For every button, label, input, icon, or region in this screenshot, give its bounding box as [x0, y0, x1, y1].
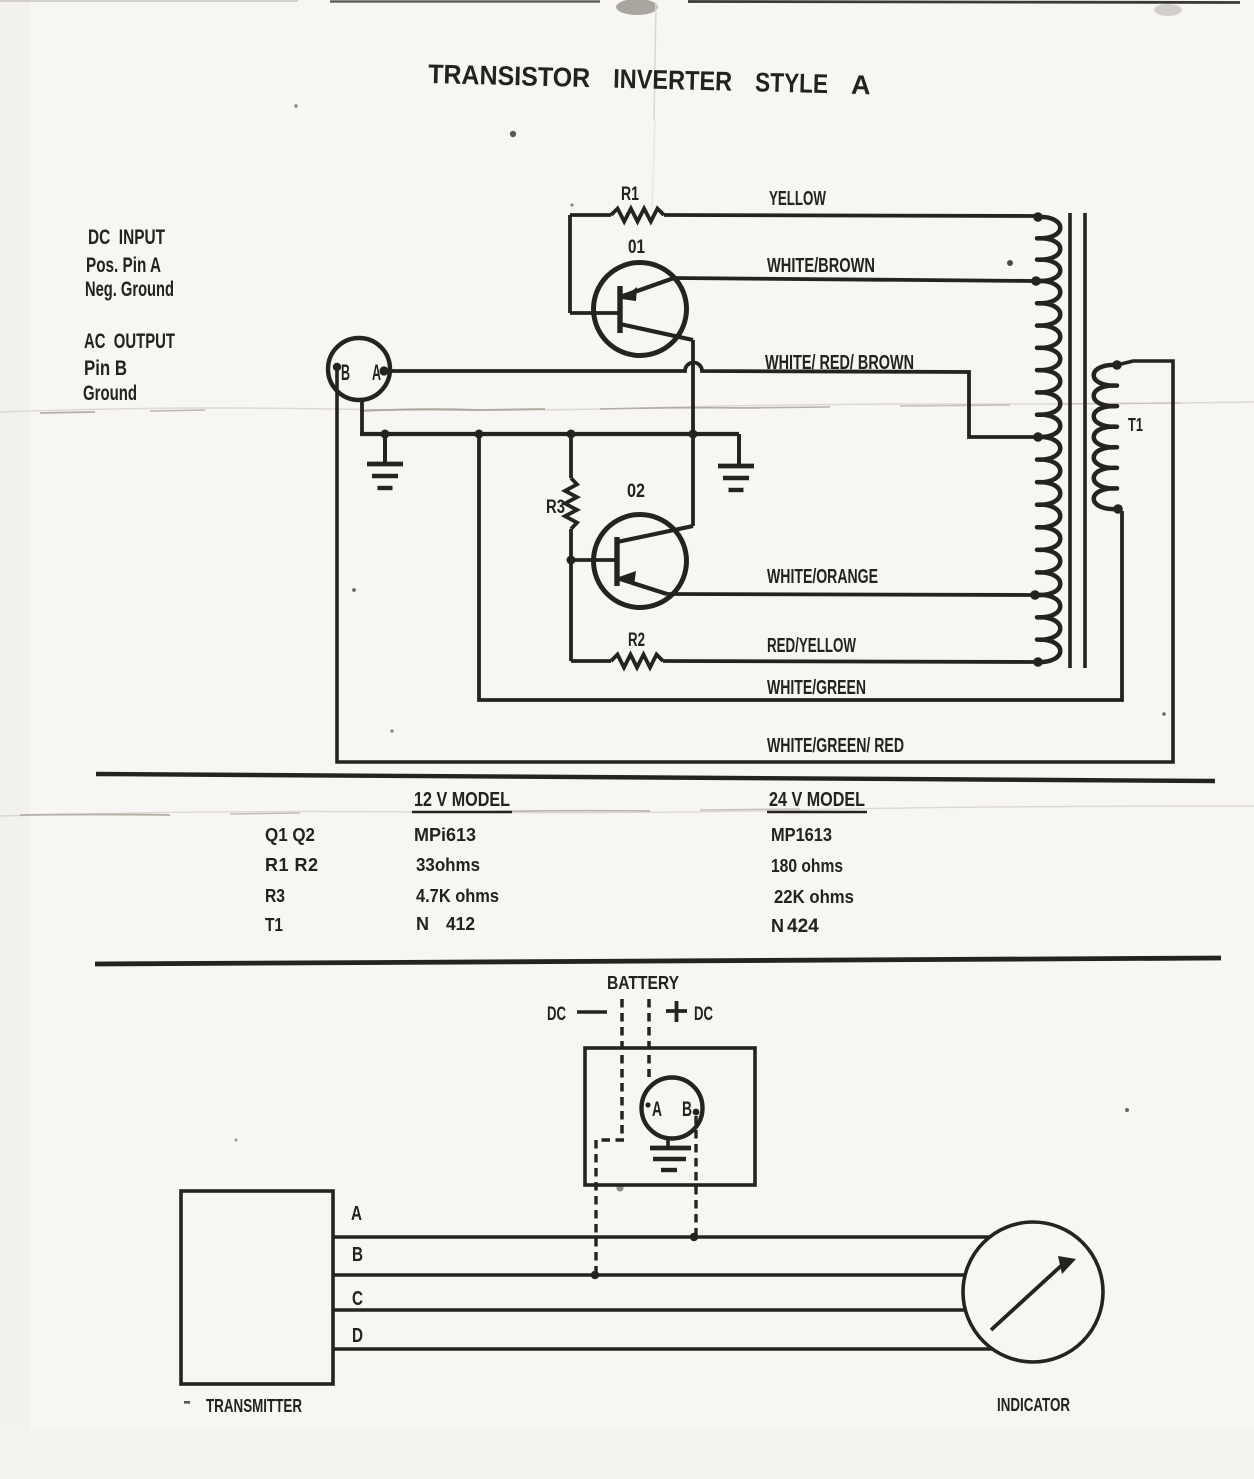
- svg-text:T1: T1: [265, 915, 283, 935]
- svg-text:R2: R2: [628, 630, 645, 651]
- svg-text:DC: DC: [694, 1004, 713, 1025]
- svg-text:N: N: [416, 914, 429, 934]
- svg-text:180 ohms: 180 ohms: [771, 856, 843, 876]
- svg-text:R3: R3: [265, 886, 285, 906]
- svg-text:Q1 Q2: Q1 Q2: [265, 825, 315, 845]
- svg-text:N: N: [771, 916, 784, 936]
- svg-text:424: 424: [787, 916, 819, 937]
- svg-text:INVERTER: INVERTER: [613, 64, 733, 97]
- svg-text:33ohms: 33ohms: [416, 855, 480, 875]
- svg-text:D: D: [352, 1325, 363, 1347]
- svg-text:Ground: Ground: [83, 382, 137, 405]
- svg-text:24 V MODEL: 24 V MODEL: [769, 789, 865, 811]
- svg-text:B: B: [341, 360, 350, 385]
- svg-text:22K ohms: 22K ohms: [774, 887, 854, 907]
- svg-text:R1 R2: R1 R2: [265, 855, 318, 875]
- svg-text:A: A: [351, 1203, 362, 1225]
- svg-text:Pos. Pin A: Pos. Pin A: [86, 254, 161, 277]
- svg-text:01: 01: [628, 237, 645, 258]
- svg-text:DC: DC: [547, 1004, 566, 1025]
- svg-text:MPi613: MPi613: [414, 825, 476, 845]
- svg-text:C: C: [352, 1288, 363, 1310]
- svg-text:412: 412: [446, 914, 475, 934]
- svg-text:WHITE/GREEN: WHITE/GREEN: [767, 677, 866, 699]
- svg-text:12 V MODEL: 12 V MODEL: [414, 789, 510, 811]
- svg-text:MP1613: MP1613: [771, 825, 832, 845]
- svg-text:RED/YELLOW: RED/YELLOW: [767, 635, 856, 657]
- svg-text:R3: R3: [546, 497, 565, 518]
- svg-text:R1: R1: [621, 184, 639, 205]
- svg-text:WHITE/GREEN/ RED: WHITE/GREEN/ RED: [767, 735, 904, 757]
- svg-text:T1: T1: [1128, 415, 1143, 435]
- svg-text:B: B: [682, 1098, 692, 1121]
- svg-text:INDICATOR: INDICATOR: [997, 1395, 1070, 1415]
- svg-text:TRANSMITTER: TRANSMITTER: [206, 1396, 302, 1416]
- svg-text:02: 02: [627, 481, 645, 502]
- svg-text:A: A: [652, 1098, 662, 1121]
- svg-text:TRANSISTOR: TRANSISTOR: [428, 59, 591, 93]
- svg-text:4.7K ohms: 4.7K ohms: [416, 886, 499, 906]
- svg-text:WHITE/BROWN: WHITE/BROWN: [767, 255, 875, 277]
- svg-text:WHITE/ORANGE: WHITE/ORANGE: [767, 566, 878, 588]
- svg-text:YELLOW: YELLOW: [769, 188, 826, 210]
- svg-text:STYLE: STYLE: [755, 67, 829, 99]
- svg-text:A: A: [851, 70, 871, 100]
- svg-text:Pin B: Pin B: [84, 357, 127, 380]
- svg-text:WHITE/ RED/ BROWN: WHITE/ RED/ BROWN: [765, 352, 914, 374]
- svg-text:BATTERY: BATTERY: [607, 973, 679, 993]
- svg-text:AC OUTPUT: AC OUTPUT: [84, 330, 175, 353]
- svg-text:DC INPUT: DC INPUT: [88, 226, 165, 249]
- svg-text:B: B: [352, 1244, 363, 1266]
- svg-text:Neg. Ground: Neg. Ground: [85, 278, 174, 301]
